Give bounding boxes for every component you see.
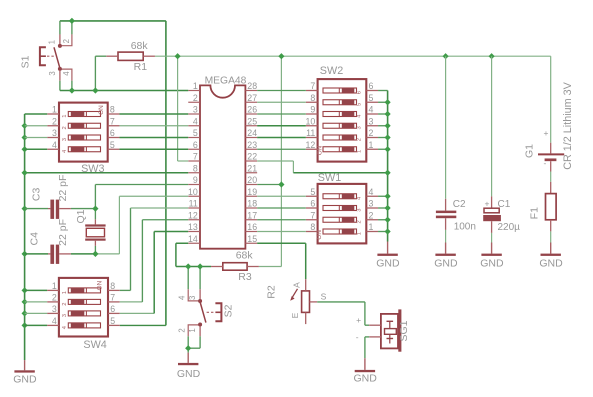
potentiometer R2 <box>266 279 327 324</box>
DIP switch SW4 <box>47 278 120 337</box>
svg-text:8: 8 <box>193 163 198 173</box>
svg-text:F1: F1 <box>529 207 541 219</box>
junction left rail nodes <box>22 123 28 329</box>
capacitor C1 220u polarized <box>483 56 520 242</box>
svg-text:1: 1 <box>369 140 374 150</box>
wire reset net S1 to IC pin 1 <box>60 56 188 90</box>
buzzer SG1 <box>356 309 410 351</box>
svg-text:3: 3 <box>357 126 363 129</box>
svg-text:+: + <box>544 128 549 138</box>
junction VCC nodes <box>175 53 495 188</box>
svg-text:16: 16 <box>247 222 257 232</box>
svg-text:1: 1 <box>357 150 363 153</box>
junction S2 gnd node <box>185 345 191 351</box>
svg-text:6: 6 <box>110 128 115 138</box>
svg-text:S2: S2 <box>222 304 234 317</box>
SW2 left pin numbers <box>306 81 316 150</box>
svg-text:5: 5 <box>110 316 115 326</box>
wire IC pin 14 to R3 and S2 <box>176 243 211 289</box>
svg-text:8: 8 <box>310 93 315 103</box>
wire SW4 pin 6 to IC pin 13 <box>120 232 189 314</box>
svg-text:23: 23 <box>247 140 257 150</box>
ground left rail GND symbol <box>13 360 37 386</box>
svg-text:9: 9 <box>310 105 315 115</box>
svg-text:19: 19 <box>247 187 257 197</box>
svg-text:1: 1 <box>369 222 374 232</box>
svg-text:20: 20 <box>247 175 257 185</box>
svg-text:2: 2 <box>369 128 374 138</box>
svg-text:12: 12 <box>306 140 316 150</box>
S2 contact dots <box>198 299 202 327</box>
wire SW4 pin 8 to IC pin 11 <box>120 208 189 290</box>
ground SW rail GND symbol <box>376 242 400 270</box>
svg-text:R1: R1 <box>134 61 148 73</box>
svg-text:1: 1 <box>62 115 68 118</box>
svg-text:15: 15 <box>247 234 257 244</box>
svg-text:7: 7 <box>110 116 115 126</box>
ground F1 GND symbol <box>539 243 563 270</box>
IC U1 right pin numbers 28-15 <box>247 81 257 244</box>
svg-text:4: 4 <box>369 187 374 197</box>
wire VCC horizontal rail <box>155 55 551 57</box>
SW1 right pin numbers <box>369 187 374 232</box>
svg-text:1: 1 <box>62 291 68 294</box>
svg-text:1: 1 <box>357 232 363 235</box>
ground SG1 GND symbol <box>354 358 378 384</box>
IC U1 left pin numbers 1-14 <box>188 81 198 244</box>
wire SW1 right pins to gnd rail <box>378 196 388 231</box>
svg-text:11: 11 <box>189 199 198 209</box>
svg-text:SW4: SW4 <box>83 339 106 351</box>
svg-text:7: 7 <box>310 81 315 91</box>
svg-text:4: 4 <box>193 116 198 126</box>
svg-text:28: 28 <box>247 81 257 91</box>
svg-text:8: 8 <box>110 105 115 115</box>
svg-text:1: 1 <box>48 40 57 44</box>
svg-text:3: 3 <box>62 314 68 317</box>
wire IC pin 15 to R2 wiper A <box>257 243 306 279</box>
svg-text:2: 2 <box>357 220 363 223</box>
svg-text:3: 3 <box>193 105 198 115</box>
svg-text:22: 22 <box>247 152 257 162</box>
svg-text:2: 2 <box>52 293 57 303</box>
svg-text:Q1: Q1 <box>75 209 87 223</box>
svg-text:22 pF: 22 pF <box>57 219 69 246</box>
SW1 left pin numbers <box>310 187 315 232</box>
S2 pin labels 3 4 1 2 <box>178 295 198 333</box>
svg-text:SW2: SW2 <box>320 65 343 77</box>
svg-text:10: 10 <box>188 187 198 197</box>
wire IC pin 8 GND row <box>25 172 189 174</box>
svg-text:18: 18 <box>247 199 257 209</box>
svg-text:+: + <box>356 315 361 325</box>
svg-text:14: 14 <box>188 234 198 244</box>
wire IC pins 19-16 to SW1 <box>257 196 306 231</box>
svg-text:27: 27 <box>247 93 257 103</box>
svg-text:ON: ON <box>317 145 324 155</box>
wire SW gnd rail vertical <box>387 91 389 242</box>
svg-text:21: 21 <box>247 163 257 173</box>
capacitor C2 100n <box>436 56 476 242</box>
svg-text:3: 3 <box>52 304 57 314</box>
svg-text:25: 25 <box>247 116 257 126</box>
junction S1 pin2 top <box>69 18 75 24</box>
svg-text:17: 17 <box>247 210 257 220</box>
svg-text:3: 3 <box>52 128 57 138</box>
resistor R3 68k <box>211 249 259 283</box>
svg-text:G1: G1 <box>523 144 535 158</box>
svg-text:2: 2 <box>369 210 374 220</box>
S1 pin labels 1 2 3 4 <box>48 39 71 76</box>
DIP switch SW2 <box>306 79 378 162</box>
svg-text:6: 6 <box>310 199 315 209</box>
svg-text:2: 2 <box>193 93 198 103</box>
wire S1 top to vertical rail <box>60 21 166 34</box>
svg-text:8: 8 <box>310 222 315 232</box>
capacitor C3 22pF <box>25 175 96 219</box>
svg-text:ON: ON <box>97 280 104 290</box>
DIP switch SW3 <box>47 103 119 162</box>
svg-text:9: 9 <box>193 175 198 185</box>
svg-text:R3: R3 <box>238 271 252 283</box>
svg-text:3: 3 <box>48 71 57 75</box>
wire SW2 right pins to gnd rail <box>378 91 388 150</box>
svg-text:4: 4 <box>62 71 71 76</box>
SW3 right pin numbers <box>110 105 115 150</box>
svg-text:1: 1 <box>52 105 57 115</box>
ground C2 GND symbol <box>434 243 458 270</box>
wire IC pin 22 to gnd rail <box>257 161 387 173</box>
svg-text:3: 3 <box>188 296 197 300</box>
wire R1 left lead down <box>95 55 106 57</box>
junction Q1 nodes <box>92 206 98 258</box>
wire IC pins 28-23 to SW2 <box>257 91 306 150</box>
wire SW3 left pins to rail <box>25 114 48 149</box>
svg-text:SW3: SW3 <box>81 163 104 175</box>
svg-text:6: 6 <box>357 91 363 94</box>
svg-text:68k: 68k <box>236 249 254 261</box>
svg-text:SW1: SW1 <box>318 172 341 184</box>
svg-text:2: 2 <box>62 39 71 43</box>
svg-text:4: 4 <box>178 295 187 300</box>
resistor R1 68k <box>106 40 155 73</box>
svg-text:4: 4 <box>52 140 57 150</box>
SW2 right pin numbers <box>369 81 374 150</box>
svg-text:1: 1 <box>188 328 197 332</box>
svg-text:GND: GND <box>539 258 563 270</box>
battery G1 CR 1/2 Lithium 3V <box>523 56 574 171</box>
SW4 left pin numbers <box>52 281 57 326</box>
wire SW4 pin 7 to IC pin 12 <box>120 220 189 302</box>
junction gnd rail nodes <box>385 99 391 234</box>
svg-text:3: 3 <box>369 116 374 126</box>
svg-text:C2: C2 <box>453 199 466 210</box>
svg-text:GND: GND <box>480 258 504 270</box>
svg-text:MEGA48: MEGA48 <box>205 76 247 87</box>
wire S2 to GND <box>188 336 200 352</box>
svg-text:S: S <box>321 292 327 302</box>
wire XTAL2 IC pin 10 to Q1 C4 <box>95 196 188 254</box>
ground S2 GND symbol <box>177 353 201 380</box>
wire SW3 right pins to IC pins 3-6 <box>119 114 188 149</box>
svg-text:C4: C4 <box>29 232 41 246</box>
wire XTAL1 IC pin 9 to Q1 C3 <box>95 185 188 220</box>
svg-text:13: 13 <box>188 222 198 232</box>
svg-text:3: 3 <box>357 209 363 212</box>
switch S1 <box>40 34 72 81</box>
svg-text:5: 5 <box>310 187 315 197</box>
svg-text:7: 7 <box>310 210 315 220</box>
svg-text:E: E <box>290 312 300 318</box>
svg-text:2: 2 <box>178 328 187 332</box>
svg-text:S1: S1 <box>20 55 32 68</box>
IC U1 left pin stubs 1-14 <box>188 91 200 244</box>
wire left GND rail <box>24 114 26 360</box>
svg-text:C3: C3 <box>30 188 42 202</box>
svg-text:ON: ON <box>98 105 105 115</box>
svg-text:100n: 100n <box>454 222 476 233</box>
SW4 right pin numbers <box>110 281 115 326</box>
svg-text:7: 7 <box>110 293 115 303</box>
svg-text:4: 4 <box>369 105 374 115</box>
switch S2 <box>188 289 221 336</box>
svg-text:5: 5 <box>110 140 115 150</box>
svg-text:26: 26 <box>247 105 257 115</box>
svg-text:1: 1 <box>193 81 198 91</box>
svg-text:68k: 68k <box>131 40 149 52</box>
ground C1 GND symbol <box>480 243 504 270</box>
crystal Q1 <box>75 209 106 246</box>
svg-text:6: 6 <box>369 81 374 91</box>
svg-text:CR 1/2 Lithium 3V: CR 1/2 Lithium 3V <box>562 81 574 169</box>
svg-text:R2: R2 <box>266 285 278 299</box>
wire vertical x166 down to SW4 pin 5 row <box>120 21 166 326</box>
svg-text:2: 2 <box>357 138 363 141</box>
svg-text:22 pF: 22 pF <box>57 175 69 202</box>
junction R3 S2 nodes <box>185 263 203 269</box>
svg-text:GND: GND <box>177 368 201 380</box>
svg-text:11: 11 <box>306 128 315 138</box>
svg-text:A: A <box>291 282 301 288</box>
svg-text:5: 5 <box>357 103 363 106</box>
wire VCC to IC pin 7 <box>178 56 189 161</box>
svg-text:3: 3 <box>369 199 374 209</box>
wire SG1 minus to GND <box>365 337 369 358</box>
svg-text:6: 6 <box>110 304 115 314</box>
fuse F1 <box>529 172 557 243</box>
svg-text:2: 2 <box>52 116 57 126</box>
IC U1 right pin stubs 15-28 <box>245 91 257 244</box>
svg-text:8: 8 <box>110 281 115 291</box>
IC U1 MEGA48 body <box>200 76 247 249</box>
svg-text:5: 5 <box>369 93 374 103</box>
capacitor C4 22pF <box>25 219 96 264</box>
svg-text:24: 24 <box>247 128 257 138</box>
wire VCC vertical to AVCC and R3 <box>257 56 281 266</box>
svg-text:ON: ON <box>316 230 323 240</box>
S1 contact dots <box>58 44 62 48</box>
svg-text:C1: C1 <box>498 199 511 210</box>
svg-text:12: 12 <box>188 210 198 220</box>
svg-text:2: 2 <box>62 126 68 129</box>
wire SW4 left pins to rail <box>25 290 48 325</box>
svg-text:4: 4 <box>52 316 57 326</box>
junction reset net <box>69 87 75 93</box>
svg-text:SG1: SG1 <box>398 320 410 341</box>
svg-text:GND: GND <box>434 258 458 270</box>
svg-text:10: 10 <box>306 116 316 126</box>
DIP switch SW1 <box>306 184 378 244</box>
svg-text:1: 1 <box>52 281 57 291</box>
svg-text:GND: GND <box>354 372 378 384</box>
svg-text:6: 6 <box>193 140 198 150</box>
wire R2 wiper S to SG1 plus <box>317 302 369 325</box>
svg-text:-: - <box>356 332 359 342</box>
svg-text:-: - <box>543 158 546 168</box>
svg-text:220µ: 220µ <box>498 222 521 233</box>
svg-text:2: 2 <box>62 302 68 305</box>
svg-text:GND: GND <box>13 374 37 386</box>
svg-text:GND: GND <box>376 258 400 270</box>
SW3 left pin numbers <box>52 105 57 150</box>
svg-text:5: 5 <box>193 128 198 138</box>
svg-text:+: + <box>485 199 490 209</box>
svg-text:7: 7 <box>193 152 198 162</box>
svg-text:3: 3 <box>62 138 68 141</box>
